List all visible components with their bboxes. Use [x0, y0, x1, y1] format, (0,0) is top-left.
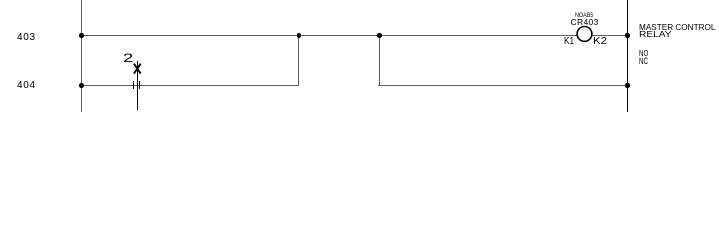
coil reference CR403 — [571, 18, 599, 27]
wire rung 404 right segment — [378, 85, 627, 86]
node junction dot branch 1 rung 403 — [297, 33, 302, 38]
wire branch vertical at x379 — [379, 35, 380, 85]
contact right bar — [139, 81, 140, 90]
terminal label K1 — [564, 36, 574, 47]
coil part number NOAB5 — [575, 13, 593, 20]
comment text RELAY — [639, 31, 672, 39]
comment text MASTER CONTROL — [639, 24, 715, 32]
node junction dot right rail rung 403 — [625, 33, 630, 38]
node junction dot branch 2 rung 403 — [377, 33, 382, 38]
label 2 (cross reference) — [123, 54, 133, 66]
X wire reference marker — [130, 58, 146, 78]
relay coil CR403 circle — [574, 24, 595, 44]
vertical wire through contact — [137, 61, 139, 110]
node junction dot left rail rung 403 — [79, 33, 84, 38]
wire rung 404 left segment — [81, 85, 299, 86]
wire branch vertical at x298 — [298, 35, 299, 85]
contact left bar — [133, 81, 134, 90]
node junction dot right rail rung 404 — [625, 83, 630, 88]
comment text NC — [639, 57, 648, 66]
terminal label K2 — [593, 36, 607, 47]
rung number 403 — [17, 33, 36, 43]
rung number 404 — [17, 81, 36, 91]
right power rail — [627, 0, 628, 112]
wire rung 403 right segment — [592, 35, 627, 36]
node junction dot left rail rung 404 — [79, 83, 84, 88]
wire rung 403 left segment — [81, 35, 577, 36]
comment text NO — [639, 50, 648, 58]
left power rail — [81, 0, 82, 112]
